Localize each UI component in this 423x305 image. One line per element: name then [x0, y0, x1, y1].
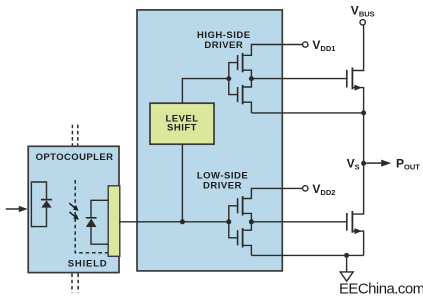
high-side bottom rail wire: [251, 112, 363, 114]
photodiode loop: [91, 200, 109, 244]
low-side PMOS gate plate: [237, 198, 239, 213]
node low-side input: [226, 219, 231, 224]
svg-text:VDD2: VDD2: [312, 182, 335, 197]
svg-text:SHIFT: SHIFT: [167, 122, 197, 133]
label HIGH-SIDE DRIVER: [197, 30, 251, 51]
node high-side output: [249, 76, 254, 81]
LED input loop: [31, 182, 46, 227]
low-side PMOS source lead to output: [243, 213, 252, 221]
wire level-shift to low-side node: [181, 144, 183, 222]
ground stem: [346, 255, 348, 272]
transistor Q1 source arrow: [354, 85, 362, 91]
high-side NMOS channel: [242, 85, 244, 104]
ground rail wire: [251, 254, 363, 256]
transistor Q1 gate plate: [346, 70, 348, 88]
dashed pair above optocoupler: [72, 125, 77, 146]
label LOW-SIDE DRIVER: [197, 170, 248, 191]
node ground junction: [344, 253, 349, 258]
node VS junction: [361, 161, 366, 166]
ground symbol: [340, 272, 353, 281]
label LEVEL SHIFT: [165, 114, 198, 134]
transistor Q2 source arrow: [354, 228, 362, 234]
svg-text:VS: VS: [347, 156, 360, 171]
optocoupler input arrow: [6, 208, 20, 210]
svg-text:EEChina.com: EEChina.com: [339, 281, 423, 297]
terminal VDD2: [303, 186, 308, 191]
high-side PMOS channel: [242, 53, 244, 72]
node level-shift / low-side input junction: [180, 219, 185, 224]
wire low-side output to Q2 gate: [251, 221, 346, 223]
svg-text:DRIVER: DRIVER: [203, 180, 242, 191]
dashed pair below optocoupler: [72, 274, 78, 293]
node high-side return junction: [361, 110, 366, 115]
shield bar: [108, 186, 120, 256]
isolation barrier dashed line: [75, 180, 108, 253]
high-side NMOS drain lead to output: [243, 79, 252, 87]
photodiode D2: [86, 217, 97, 219]
transistor Q1 source lead: [352, 88, 363, 164]
high-side PMOS source lead to output: [243, 70, 252, 78]
terminal VDD1: [303, 42, 308, 47]
transistor Q1 channel: [351, 68, 353, 90]
low-side NMOS drain lead to output: [243, 222, 252, 230]
low-side NMOS channel: [242, 228, 244, 247]
transistor Q2 gate plate: [346, 213, 348, 231]
svg-text:POUT: POUT: [396, 156, 420, 171]
light emission arrow 1: [69, 203, 75, 208]
svg-text:OPTOCOUPLER: OPTOCOUPLER: [36, 152, 114, 163]
LED D1: [41, 199, 52, 201]
high-side NMOS gate plate: [237, 87, 239, 102]
low-side driver common gate: [229, 206, 238, 238]
svg-text:DRIVER: DRIVER: [204, 40, 243, 51]
high-side PMOS gate plate: [237, 55, 239, 70]
transistor Q2 source lead to ground rail: [352, 231, 363, 255]
driver IC block U1: [137, 10, 282, 271]
terminal VBUS: [360, 20, 365, 25]
POUT arrow: [366, 162, 381, 164]
low-side NMOS source lead to ground rail: [243, 245, 252, 255]
transistor Q2 channel: [351, 211, 353, 233]
svg-text:VBUS: VBUS: [351, 4, 375, 19]
node low-side output: [249, 219, 254, 224]
wire level-shift to high-side input: [182, 79, 228, 104]
high-side PMOS drain lead to VDD1 rail: [243, 45, 303, 56]
low-side PMOS drain lead to VDD2 rail: [243, 188, 303, 198]
optocoupler box U2: [28, 146, 119, 272]
transistor Q1 drain lead to VBUS: [352, 25, 363, 70]
wire optocoupler output to low-side input: [119, 221, 229, 223]
high-side driver common gate: [229, 63, 238, 95]
light emission arrow 2: [70, 212, 76, 217]
low-side PMOS channel: [242, 196, 244, 215]
svg-text:SHIELD: SHIELD: [68, 258, 108, 269]
level shift block: [150, 103, 214, 144]
high-side NMOS source lead to bottom rail: [243, 102, 252, 113]
transistor Q2 drain lead to VS node: [352, 163, 363, 214]
low-side NMOS gate plate: [237, 230, 239, 245]
node high-side input: [226, 76, 231, 81]
wire high-side output to Q1 gate: [251, 78, 346, 80]
svg-text:VDD1: VDD1: [312, 38, 335, 53]
